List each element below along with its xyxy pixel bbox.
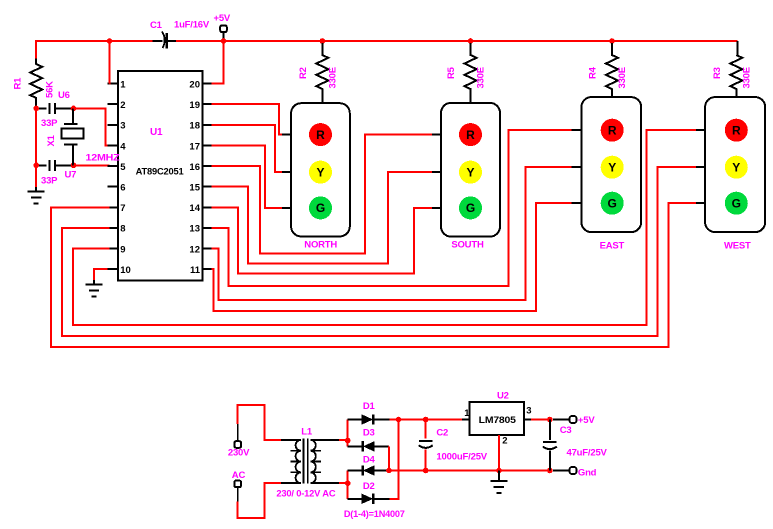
svg-text:230/ 0-12V AC: 230/ 0-12V AC [276,489,335,500]
svg-text:3: 3 [526,405,531,416]
svg-text:12: 12 [189,244,200,255]
svg-text:330E: 330E [741,67,752,88]
svg-text:L1: L1 [301,426,313,437]
svg-text:2: 2 [120,100,125,111]
svg-text:8: 8 [120,224,125,235]
svg-text:U7: U7 [65,170,77,181]
svg-text:U2: U2 [497,390,509,401]
svg-text:56K: 56K [45,81,56,98]
svg-text:C1: C1 [150,20,163,31]
svg-text:R: R [732,124,741,138]
svg-text:1000uF/25V: 1000uF/25V [436,451,487,462]
svg-text:R5: R5 [446,66,457,79]
svg-text:5: 5 [120,162,126,173]
svg-text:Y: Y [316,165,324,179]
svg-text:SOUTH: SOUTH [451,240,484,251]
svg-text:17: 17 [189,141,200,152]
svg-text:D(1-4)=1N4007: D(1-4)=1N4007 [344,509,405,520]
svg-text:13: 13 [189,224,200,235]
svg-text:+5V: +5V [214,13,231,24]
svg-text:4: 4 [120,141,126,152]
svg-text:47uF/25V: 47uF/25V [567,447,608,458]
svg-text:D3: D3 [363,428,375,439]
svg-text:G: G [316,201,325,215]
svg-text:9: 9 [120,244,125,255]
svg-text:33P: 33P [41,176,58,187]
svg-text:LM7805: LM7805 [479,415,517,426]
svg-text:1: 1 [120,79,126,90]
svg-text:C2: C2 [436,427,448,438]
svg-text:G: G [732,197,741,211]
svg-text:D1: D1 [363,401,376,412]
svg-text:18: 18 [189,121,200,132]
svg-text:NORTH: NORTH [304,240,337,251]
svg-text:12MHZ: 12MHZ [86,152,120,163]
svg-text:R: R [466,128,475,142]
svg-text:2: 2 [502,436,507,447]
svg-text:EAST: EAST [600,241,625,252]
svg-text:U1: U1 [150,127,163,138]
svg-text:Y: Y [466,165,474,179]
svg-text:R2: R2 [298,67,309,79]
svg-text:X1: X1 [46,134,57,146]
svg-text:Y: Y [608,161,616,175]
svg-text:+5V: +5V [578,415,595,426]
svg-text:1: 1 [464,408,470,419]
svg-text:WEST: WEST [724,241,751,252]
svg-text:C3: C3 [560,425,572,436]
svg-text:14: 14 [189,203,200,214]
svg-text:20: 20 [189,79,200,90]
svg-text:10: 10 [120,265,131,276]
svg-text:7: 7 [120,203,125,214]
svg-text:330E: 330E [327,67,338,88]
svg-text:R3: R3 [712,67,723,79]
svg-text:R4: R4 [587,66,598,79]
svg-text:15: 15 [189,183,200,194]
svg-text:330E: 330E [476,67,487,88]
svg-text:19: 19 [189,100,200,111]
svg-text:6: 6 [120,183,125,194]
svg-text:AC: AC [232,470,246,481]
svg-text:D4: D4 [363,454,376,465]
svg-text:Y: Y [732,161,740,175]
svg-text:D2: D2 [363,481,375,492]
svg-text:1uF/16V: 1uF/16V [174,20,210,31]
svg-text:G: G [608,197,617,211]
svg-text:U6: U6 [58,90,70,101]
svg-text:AT89C2051: AT89C2051 [136,166,185,177]
svg-text:G: G [466,201,475,215]
svg-text:11: 11 [190,265,201,276]
svg-text:330E: 330E [617,67,628,88]
svg-text:Gnd: Gnd [578,468,597,479]
svg-text:230V: 230V [228,448,250,459]
svg-text:3: 3 [120,121,125,132]
svg-text:33P: 33P [41,118,58,129]
svg-text:R: R [316,128,325,142]
svg-text:R: R [608,124,617,138]
svg-text:R1: R1 [13,77,24,90]
svg-text:16: 16 [189,162,200,173]
